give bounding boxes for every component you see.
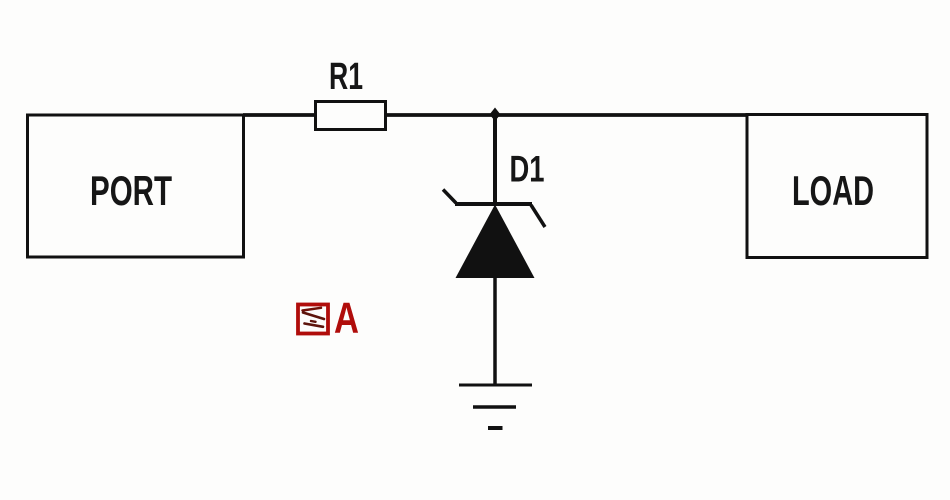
diode D1 triangle [456, 205, 535, 279]
cathode bar right tick [531, 205, 545, 227]
ground bar 1 [459, 384, 532, 387]
ground bar 3 [488, 426, 503, 430]
ground bar 2 [473, 405, 516, 409]
PORT box [28, 115, 244, 257]
wire junction to D1 [493, 115, 497, 204]
svg-text:LOAD: LOAD [792, 167, 874, 214]
wire R1 to LOAD [385, 113, 748, 117]
svg-text:A: A [334, 294, 359, 343]
svg-text:PORT: PORT [90, 167, 172, 214]
cathode bar left tick [443, 190, 456, 204]
resistor R1 [316, 102, 386, 130]
junction node [490, 108, 501, 122]
diode D1 cathode bar [455, 202, 532, 206]
svg-text:D1: D1 [510, 149, 545, 190]
LOAD box [747, 115, 927, 258]
wire PORT to R1 [243, 113, 317, 117]
wire D1 to ground [493, 277, 497, 385]
svg-text:R1: R1 [329, 56, 363, 98]
figure label 图 (drawn) [298, 305, 328, 334]
